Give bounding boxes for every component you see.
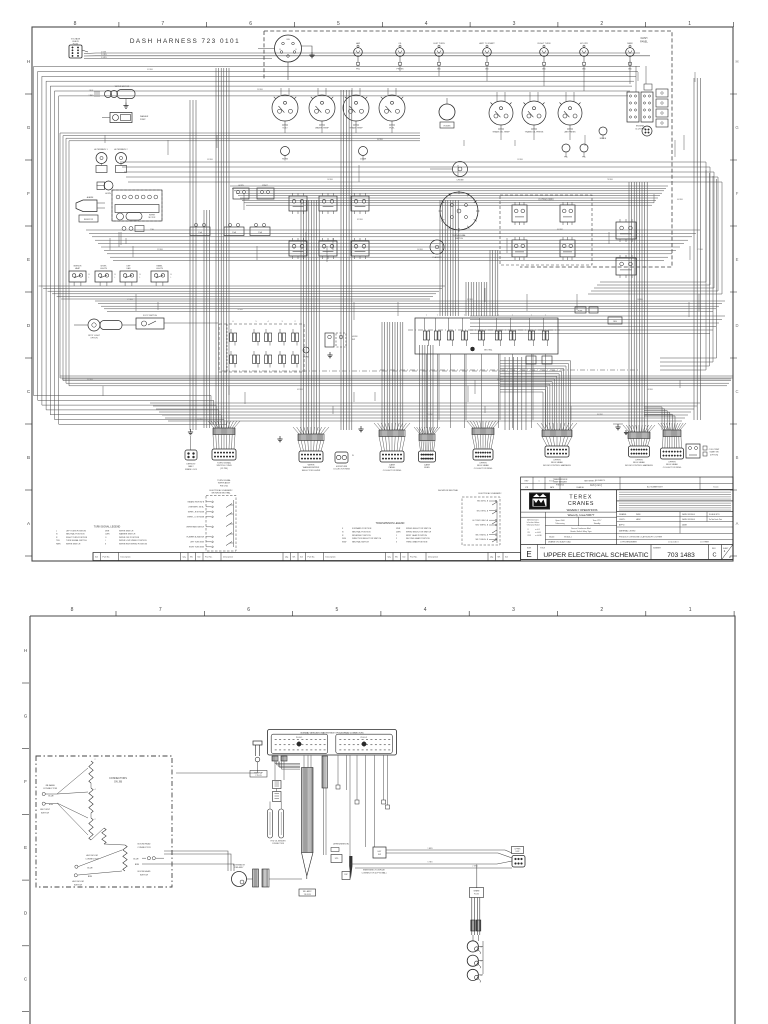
connector P6 boom harness bbox=[537, 423, 543, 430]
resistor R11 bbox=[89, 788, 93, 813]
svg-text:MATERIAL LISTED: MATERIAL LISTED bbox=[619, 530, 636, 533]
wire spot to foot bbox=[122, 324, 136, 326]
svg-text:DRAWN:: DRAWN: bbox=[619, 513, 627, 516]
wire bundle H right bus bbox=[470, 315, 725, 317]
hourmeter M1 bbox=[439, 104, 455, 120]
svg-text:Qty.: Qty. bbox=[285, 556, 289, 559]
circuit breaker CB3 bbox=[250, 227, 270, 236]
harness wrap strip bbox=[302, 768, 314, 853]
svg-text:5WR: 5WR bbox=[396, 528, 401, 530]
svg-text:WASHER SWITCH: WASHER SWITCH bbox=[119, 533, 136, 536]
wire bundle V2 center-left bbox=[189, 100, 191, 430]
svg-text:40 RED: 40 RED bbox=[197, 419, 204, 421]
svg-text:SWITCH: SWITCH bbox=[140, 874, 149, 876]
svg-text:22 RED: 22 RED bbox=[157, 249, 164, 251]
svg-text:☐ CLOUD 3: ☐ CLOUD 3 bbox=[668, 541, 678, 544]
svg-text:Part No.: Part No. bbox=[410, 556, 418, 559]
svg-text:WIPER OFF POSITION: WIPER OFF POSITION bbox=[119, 537, 140, 539]
indicator lamp L6 AT OPR bbox=[580, 48, 589, 57]
svg-text:1: 1 bbox=[396, 535, 397, 537]
wire bundle V8 center tall 2 bbox=[465, 282, 467, 316]
resistor R12 bbox=[89, 818, 93, 840]
svg-text:2 ORN: 2 ORN bbox=[101, 54, 107, 56]
display panel connector bbox=[512, 847, 524, 854]
svg-text:RIGHT TURN: RIGHT TURN bbox=[538, 43, 551, 45]
svg-text:TURN SIGNAL LEGEND: TURN SIGNAL LEGEND bbox=[94, 526, 121, 529]
svg-text:HAZ: HAZ bbox=[356, 42, 361, 45]
svg-text:NE-T GMH B+ B: NE-T GMH B+ B bbox=[476, 525, 489, 527]
jib connectors dashed enclosure bbox=[36, 756, 172, 887]
svg-text:HORN: HORN bbox=[105, 193, 111, 195]
svg-text:UPPER: UPPER bbox=[635, 460, 643, 462]
svg-text:HOURS: HOURS bbox=[444, 126, 452, 128]
gauge G1 VOLT bbox=[272, 95, 298, 121]
svg-text:TURN SIGNAL: TURN SIGNAL bbox=[217, 479, 231, 482]
svg-text:CONNECTOR: CONNECTOR bbox=[43, 788, 57, 790]
svg-text:FIRST GEAR POSITION: FIRST GEAR POSITION bbox=[406, 534, 428, 537]
svg-text:HI-T DMLY GSH 5-B: HI-T DMLY GSH 5-B bbox=[473, 520, 489, 522]
connector P1a key lock bbox=[185, 450, 197, 460]
wire bundle V6 bbox=[419, 345, 421, 434]
svg-text:5: 5 bbox=[336, 607, 339, 613]
wire bundle V1 to connector P1 bbox=[215, 68, 217, 428]
svg-text:CHOKE: CHOKE bbox=[456, 180, 464, 182]
wire bundle V9 to connector P7 bbox=[500, 392, 543, 430]
svg-text:FLASHER: FLASHER bbox=[433, 256, 442, 259]
svg-text:BRN: BRN bbox=[49, 804, 54, 806]
rocker switch S3 MIRROR bbox=[69, 271, 86, 282]
dashed link line bbox=[222, 370, 560, 372]
svg-text:Decora Crawlovers Mod.: Decora Crawlovers Mod. bbox=[571, 528, 591, 530]
svg-text:8T0116-1: 8T0116-1 bbox=[564, 537, 572, 539]
title block rows bbox=[617, 516, 733, 518]
svg-text:DASH HARNESS 723 0101: DASH HARNESS 723 0101 bbox=[130, 38, 240, 45]
svg-text:H: H bbox=[735, 59, 738, 64]
svg-text:SEL GTH B+ B: SEL GTH B+ B bbox=[477, 510, 489, 512]
svg-text:REV.: REV. bbox=[712, 548, 716, 550]
svg-text:ALL NUMBER BURT: ALL NUMBER BURT bbox=[647, 486, 663, 489]
svg-text:FAN: FAN bbox=[127, 267, 131, 270]
svg-text:SPEED SELECTOR SWITCH: SPEED SELECTOR SWITCH bbox=[406, 528, 432, 530]
svg-text:WIPER HIGH SPEED POSITION: WIPER HIGH SPEED POSITION bbox=[119, 543, 148, 545]
svg-text:B: B bbox=[140, 274, 141, 276]
relay K15 cold start bbox=[686, 444, 700, 458]
aux module boxes bbox=[526, 356, 536, 364]
svg-text:16 RED: 16 RED bbox=[327, 179, 334, 181]
svg-text:PRESS: PRESS bbox=[396, 68, 404, 70]
svg-text:F: F bbox=[736, 191, 739, 196]
svg-text:6: 6 bbox=[247, 607, 250, 613]
fuse F2 bbox=[589, 307, 598, 313]
svg-text:Description: Description bbox=[428, 556, 438, 559]
svg-text:PANEL: PANEL bbox=[389, 466, 397, 469]
lamp jumper wire bbox=[472, 935, 474, 941]
svg-text:4: 4 bbox=[425, 21, 428, 27]
selector drop wires bbox=[426, 354, 428, 428]
mini connector strips bbox=[272, 756, 278, 761]
svg-text:LEFT TURN: LEFT TURN bbox=[433, 43, 445, 45]
relay K8 bbox=[351, 241, 369, 256]
svg-text:4: 4 bbox=[424, 607, 427, 613]
svg-text:(SPEEDSENSOR): (SPEEDSENSOR) bbox=[333, 844, 349, 846]
svg-text:MK-T GSH B+ B: MK-T GSH B+ B bbox=[476, 539, 489, 541]
svg-text:7.8 0913: 7.8 0913 bbox=[304, 894, 311, 896]
dark pointer display bbox=[349, 856, 352, 879]
svg-text:2: 2 bbox=[600, 21, 603, 27]
svg-text:CHK'D:: CHK'D: bbox=[619, 519, 626, 521]
svg-text:C: C bbox=[735, 389, 738, 394]
outriggers dashed enclosure bbox=[500, 195, 592, 265]
connector P7 bbox=[623, 425, 629, 432]
washer pump bbox=[110, 113, 132, 123]
svg-text:COLLECTOR RING: COLLECTOR RING bbox=[333, 469, 350, 471]
svg-text:BULK HEAD: BULK HEAD bbox=[666, 463, 678, 466]
svg-text:HEAT: HEAT bbox=[75, 267, 81, 270]
connector P8 bbox=[658, 423, 664, 430]
svg-text:UPPER ELECTRICAL SCHEMATIC: UPPER ELECTRICAL SCHEMATIC bbox=[543, 552, 648, 559]
svg-text:= ±0.1: = ±0.1 bbox=[535, 529, 540, 531]
svg-text:SHOWN IN NEUTRAL: SHOWN IN NEUTRAL bbox=[211, 492, 230, 495]
svg-text:D: D bbox=[735, 323, 738, 328]
svg-text:JIB POINT: JIB POINT bbox=[40, 809, 51, 811]
svg-text:COLLECTOR RING: COLLECTOR RING bbox=[663, 467, 682, 469]
dashed link line 2 bbox=[380, 369, 640, 371]
wire bundle V13 right wrap bbox=[660, 170, 706, 370]
resistor R1 bbox=[79, 215, 98, 222]
svg-text:NEUTRAL SWITCH: NEUTRAL SWITCH bbox=[352, 541, 369, 544]
svg-text:5 TNG: 5 TNG bbox=[428, 862, 434, 864]
svg-text:H: H bbox=[24, 648, 27, 653]
panel lamp b bbox=[580, 144, 588, 152]
svg-text:Upon: 0500: Upon: 0500 bbox=[555, 520, 564, 522]
svg-text:PLUG: PLUG bbox=[73, 44, 79, 46]
svg-text:L: L bbox=[89, 277, 90, 279]
wire bundle V7 center tall bbox=[439, 200, 441, 316]
svg-text:WRB: WRB bbox=[636, 514, 641, 516]
transmission shifter switch bank bbox=[219, 324, 304, 372]
svg-text:WASHER/WIPER: WASHER/WIPER bbox=[303, 466, 320, 469]
svg-text:80 RED: 80 RED bbox=[597, 414, 604, 416]
svg-text:78 RED: 78 RED bbox=[607, 179, 614, 181]
panel lamp a bbox=[562, 144, 570, 152]
title row bbox=[537, 545, 539, 560]
circuit breaker CB2 bbox=[224, 227, 244, 236]
svg-text:PNL: PNL bbox=[564, 157, 568, 159]
svg-text:CONNECTOR (OPTIONAL): CONNECTOR (OPTIONAL) bbox=[362, 872, 387, 875]
svg-text:CRANES: CRANES bbox=[568, 501, 594, 507]
svg-text:CHANGE: CHANGE bbox=[576, 486, 584, 489]
disclaimer text blocks bbox=[617, 490, 733, 501]
engine cluster module U1 bbox=[627, 92, 639, 122]
svg-text:PLUG 2: PLUG 2 bbox=[361, 737, 367, 739]
svg-text:= ±0.06: = ±0.06 bbox=[535, 532, 541, 534]
svg-text:SELECTOR LEVER: SELECTOR LEVER bbox=[302, 470, 321, 472]
relay K14 bbox=[616, 258, 636, 275]
choke control bbox=[453, 162, 468, 177]
svg-text:HORN: HORN bbox=[352, 336, 358, 338]
dash panel dashed enclosure bbox=[264, 31, 672, 267]
svg-text:COLD TEMP: COLD TEMP bbox=[709, 449, 720, 451]
relay K2 bbox=[257, 188, 274, 199]
svg-text:5 GRN: 5 GRN bbox=[101, 57, 107, 59]
svg-text:WIPER ASSY: WIPER ASSY bbox=[218, 482, 231, 485]
svg-text:PARK: PARK bbox=[627, 42, 633, 45]
wire bundle C alternator bus bbox=[120, 162, 706, 282]
gauge G4 FUEL bbox=[379, 95, 405, 121]
svg-text:WIPER PARK SWITCH: WIPER PARK SWITCH bbox=[186, 526, 204, 529]
svg-text:F: F bbox=[24, 779, 27, 784]
svg-text:DIRECTION SELECTOR SWITCH: DIRECTION SELECTOR SWITCH bbox=[352, 538, 382, 540]
bulkhead connector table bbox=[268, 730, 397, 756]
brake press switch bbox=[599, 127, 607, 135]
svg-text:37 RED: 37 RED bbox=[467, 299, 474, 301]
connector J1 voltage check plug bbox=[69, 45, 82, 58]
svg-text:Ind: Ind bbox=[198, 557, 201, 559]
horn button S2 bbox=[281, 147, 290, 156]
svg-text:8: 8 bbox=[74, 21, 77, 27]
svg-text:L: L bbox=[171, 277, 172, 279]
svg-text:ALTERNATE 1: ALTERNATE 1 bbox=[94, 148, 108, 151]
resistor R10 bbox=[89, 761, 93, 783]
svg-text:TRANS OIL PRESS: TRANS OIL PRESS bbox=[525, 131, 544, 134]
work lamps B1 B2 B3 bbox=[467, 941, 478, 952]
svg-text:8: 8 bbox=[71, 607, 74, 613]
svg-text:E: E bbox=[736, 257, 739, 262]
terex logo bbox=[530, 493, 550, 509]
relay K6 bbox=[289, 241, 307, 256]
svg-text:BRN: BRN bbox=[135, 864, 140, 866]
svg-text:FOOT SWITCH: FOOT SWITCH bbox=[143, 315, 158, 317]
svg-text:65 RED: 65 RED bbox=[297, 389, 304, 391]
svg-text:NEUTRAL: NEUTRAL bbox=[484, 349, 492, 352]
svg-text:H: H bbox=[27, 59, 30, 64]
cigar lighter bbox=[359, 147, 368, 156]
svg-text:B: B bbox=[27, 455, 30, 460]
svg-text:Description: Description bbox=[121, 556, 131, 559]
svg-text:21 RED: 21 RED bbox=[427, 414, 434, 416]
washer bottle bbox=[122, 227, 126, 231]
svg-text:TRANSMISSION: TRANSMISSION bbox=[553, 478, 568, 481]
svg-text:Qty.: Qty. bbox=[490, 556, 494, 559]
svg-text:Part No.: Part No. bbox=[205, 556, 213, 559]
svg-text:BOOM HEAD: BOOM HEAD bbox=[138, 870, 151, 873]
svg-text:TURN SIGNAL: TURN SIGNAL bbox=[217, 462, 232, 465]
svg-text:4: 4 bbox=[95, 789, 96, 791]
svg-text:BRN: BRN bbox=[88, 876, 93, 878]
svg-text:P/N 0701: P/N 0701 bbox=[220, 485, 229, 487]
svg-text:HORN: HORN bbox=[282, 159, 288, 161]
svg-text:CLUSTER: CLUSTER bbox=[635, 128, 645, 130]
svg-text:63 RED: 63 RED bbox=[497, 379, 504, 381]
svg-text:PNL: PNL bbox=[582, 157, 586, 159]
ground GND4 bbox=[613, 423, 623, 425]
svg-text:Description: Description bbox=[223, 556, 233, 559]
svg-text:2: 2 bbox=[396, 538, 397, 540]
horn relay circle bbox=[642, 126, 652, 136]
svg-text:WASHER: WASHER bbox=[140, 115, 149, 118]
svg-text:L: L bbox=[140, 277, 141, 279]
svg-text:TEREX: TEREX bbox=[569, 495, 592, 501]
svg-text:SPARE LOCK: SPARE LOCK bbox=[185, 468, 198, 471]
svg-text:SSW: SSW bbox=[342, 542, 347, 544]
svg-text:SW: SW bbox=[352, 339, 355, 341]
outrigger relay K10 bbox=[560, 205, 575, 222]
svg-text:(12 PIN): (12 PIN) bbox=[220, 468, 228, 470]
svg-text:Tolerancing: Tolerancing bbox=[555, 523, 564, 525]
svg-text:ELECTRICAL SCHEMATIC: ELECTRICAL SCHEMATIC bbox=[478, 492, 502, 495]
svg-text:B: B bbox=[171, 274, 172, 276]
svg-text:SWITCH CONN: SWITCH CONN bbox=[217, 465, 232, 467]
svg-text:TITLE: TITLE bbox=[540, 548, 546, 550]
gauge G5 TRANS OIL TEMP bbox=[489, 101, 513, 125]
svg-text:THIRD GEAR POSITION: THIRD GEAR POSITION bbox=[406, 541, 428, 544]
wire bundle V3 to connector P2 bbox=[300, 200, 302, 434]
svg-text:NUMBER: NUMBER bbox=[653, 548, 661, 550]
svg-text:Ind: Ind bbox=[505, 557, 508, 559]
svg-text:A: A bbox=[736, 521, 739, 526]
svg-text:Ind: Ind bbox=[300, 557, 303, 559]
svg-text:HORN/TURN: HORN/TURN bbox=[336, 466, 348, 468]
svg-text:64 RED: 64 RED bbox=[677, 199, 684, 201]
terminal stack 1 bbox=[273, 781, 282, 789]
outrigger relay K9 bbox=[512, 205, 527, 222]
svg-text:DASH: DASH bbox=[389, 464, 395, 467]
connector P2a horn ring bbox=[335, 452, 348, 463]
svg-text:SECOND GEAR POSITION: SECOND GEAR POSITION bbox=[406, 537, 430, 540]
svg-text:Otherwise Noted: Otherwise Noted bbox=[527, 524, 540, 527]
flasher bbox=[460, 243, 462, 245]
wires into strip bbox=[303, 756, 305, 768]
svg-text:SPOT LIGHT: SPOT LIGHT bbox=[88, 335, 101, 337]
svg-text:UPPER: UPPER bbox=[553, 460, 561, 462]
svg-text:74 RED: 74 RED bbox=[237, 309, 244, 311]
svg-text:E.C.N.: E.C.N. bbox=[550, 481, 556, 483]
wire pair jib to boom head bbox=[164, 851, 228, 871]
svg-text:VOLT: VOLT bbox=[282, 128, 288, 130]
ground GND1 bbox=[190, 429, 192, 432]
svg-text:RIGHT TURN POSITION: RIGHT TURN POSITION bbox=[66, 537, 88, 539]
wire capsule 1 bbox=[268, 809, 273, 838]
gauge G7 AIR PRESS bbox=[558, 101, 582, 125]
wire bundle E mid bus bbox=[86, 229, 700, 231]
svg-text:ANTI TO START: ANTI TO START bbox=[479, 42, 495, 45]
svg-text:WIPER: WIPER bbox=[308, 465, 315, 467]
connector P1 turn signal bbox=[208, 421, 214, 428]
wire bundle V5 to connector P3 bbox=[381, 322, 383, 430]
resistor R2 bbox=[608, 317, 622, 324]
transmission selector switch bank bbox=[415, 318, 558, 354]
tie wrap label bbox=[250, 771, 267, 778]
turn signal switch S8 bbox=[440, 192, 478, 230]
svg-text:BULK HEAD: BULK HEAD bbox=[477, 464, 489, 467]
svg-text:HEW: HEW bbox=[636, 519, 641, 521]
svg-text:RESISTOR: RESISTOR bbox=[84, 219, 94, 221]
svg-text:ALARM: ALARM bbox=[87, 196, 94, 199]
svg-text:☐ OTHER: ☐ OTHER bbox=[700, 541, 709, 544]
svg-text:Qty.: Qty. bbox=[388, 556, 392, 559]
rocker switch S6 PANEL bbox=[151, 271, 168, 282]
svg-text:LIGHTS: LIGHTS bbox=[100, 268, 108, 270]
svg-text:RES ASSY: RES ASSY bbox=[235, 866, 245, 869]
wire bundle G bottom bus 2 bbox=[150, 402, 700, 404]
svg-text:51 RED: 51 RED bbox=[147, 69, 154, 71]
svg-text:Ind: Ind bbox=[95, 557, 98, 559]
wire bundle D dash bus bbox=[230, 185, 668, 187]
svg-text:E: E bbox=[24, 845, 27, 850]
svg-text:☐ PRO/ENGINEER: ☐ PRO/ENGINEER bbox=[620, 541, 637, 544]
page 2 border frame bbox=[30, 616, 735, 1024]
svg-text:CONNECTOR: CONNECTOR bbox=[137, 847, 151, 849]
svg-text:LEFT TURN POSITION: LEFT TURN POSITION bbox=[66, 531, 87, 533]
svg-text:Qty.: Qty. bbox=[183, 556, 187, 559]
wire bundle B left-mid bus bbox=[60, 133, 733, 378]
svg-text:AIR PRESS: AIR PRESS bbox=[564, 131, 576, 134]
svg-text:ON JIB: ON JIB bbox=[114, 781, 122, 784]
svg-text:TIE WRAP: TIE WRAP bbox=[254, 772, 263, 775]
wire bundle V11 to connector P9 bbox=[644, 407, 662, 430]
svg-text:703 1483: 703 1483 bbox=[667, 552, 695, 559]
loom strip small bbox=[322, 756, 328, 788]
svg-text:COLLECTOR RING: COLLECTOR RING bbox=[383, 470, 402, 472]
svg-text:Tess: 2T17: Tess: 2T17 bbox=[593, 520, 602, 522]
relay K5 bbox=[351, 196, 369, 211]
svg-text:WIPER - HI STROBE: WIPER - HI STROBE bbox=[188, 512, 205, 514]
indicator lamp L4 ANTI TO START bbox=[483, 48, 492, 57]
svg-text:L: L bbox=[115, 277, 116, 279]
svg-text:7: 7 bbox=[161, 21, 164, 27]
svg-text:E-Lion: E-Lion bbox=[714, 487, 719, 489]
backup alarm buzzer bbox=[76, 200, 97, 212]
svg-text:SWITCH: SWITCH bbox=[455, 238, 463, 240]
svg-text:BOOM HEAD: BOOM HEAD bbox=[138, 843, 151, 846]
svg-text:BULK HEAD: BULK HEAD bbox=[551, 461, 563, 464]
lamp loom bars bbox=[471, 898, 473, 936]
svg-text:WIPER SWITCH: WIPER SWITCH bbox=[119, 531, 134, 533]
indicator lamp L7 PARK bbox=[626, 48, 635, 57]
connector P5 bulkhead bbox=[467, 421, 473, 428]
svg-text:WIPER: WIPER bbox=[149, 215, 156, 217]
svg-text:93 RED: 93 RED bbox=[207, 159, 214, 161]
svg-text:BULK HEAD: BULK HEAD bbox=[633, 461, 645, 464]
svg-text:WAVERLY OPERATIONS: WAVERLY OPERATIONS bbox=[567, 508, 598, 512]
svg-text:G: G bbox=[735, 125, 738, 130]
svg-text:SPARE: SPARE bbox=[474, 890, 481, 893]
wire bundle V12 right margin bbox=[693, 78, 695, 420]
svg-text:FAN 2: FAN 2 bbox=[188, 465, 193, 468]
svg-text:BLUE: BLUE bbox=[133, 859, 139, 861]
ignition switch SW1 bbox=[275, 35, 302, 62]
outrigger relay K12 bbox=[560, 240, 575, 257]
svg-text:CWR: CWR bbox=[105, 534, 110, 536]
svg-text:DRAWN ON: ☒ AUTOCAD: DRAWN ON: ☒ AUTOCAD bbox=[548, 541, 571, 544]
svg-text:START: START bbox=[262, 184, 269, 187]
svg-text:DEFROST: DEFROST bbox=[186, 464, 196, 466]
svg-text:3: 3 bbox=[513, 21, 516, 27]
wire bundle F lower-left bus bbox=[39, 285, 445, 287]
svg-text:WIPER SWITCH: WIPER SWITCH bbox=[66, 543, 81, 545]
svg-text:Inch [ mm ]: Inch [ mm ] bbox=[590, 484, 602, 487]
relay K7 bbox=[319, 241, 337, 256]
indicator lamp L5 RIGHT TURN bbox=[540, 48, 549, 57]
svg-text:START SW: START SW bbox=[709, 451, 718, 454]
page 1 border frame bbox=[32, 27, 733, 561]
svg-text:NEUTRAL POSITION: NEUTRAL POSITION bbox=[66, 533, 85, 536]
svg-text:2: 2 bbox=[600, 607, 603, 613]
svg-text:DATE 3/5/2004: DATE 3/5/2004 bbox=[682, 518, 695, 521]
svg-text:56 RED: 56 RED bbox=[417, 249, 424, 251]
svg-text:DWR: DWR bbox=[396, 531, 401, 533]
svg-text:17 RED: 17 RED bbox=[127, 299, 134, 301]
